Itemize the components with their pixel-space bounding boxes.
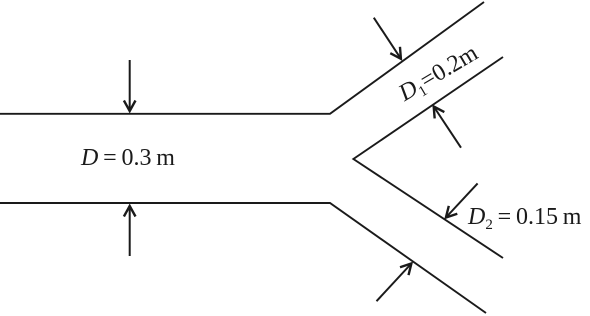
svg-text:D1=0.2m: D1=0.2m [393,40,484,110]
wire: main pipe lower wall and lower branch outer wall [0,203,486,313]
wire: main pipe upper wall and upper branch outer wall [0,2,484,114]
arrow: at upper branch outer wall [374,18,401,59]
arrow: at upper branch inner wall [434,107,461,148]
arrow: up at main pipe lower wall [129,206,131,256]
svg-text:D2 = 0.15 m: D2 = 0.15 m [467,204,582,233]
arrow: at lower branch inner wall [446,183,478,217]
arrow: down at main pipe upper wall [129,60,131,111]
svg-text:D = 0.3 m: D = 0.3 m [80,145,175,171]
wire: inner wedge walls of the two branches [353,57,503,258]
arrow: at lower branch outer wall [377,264,412,302]
